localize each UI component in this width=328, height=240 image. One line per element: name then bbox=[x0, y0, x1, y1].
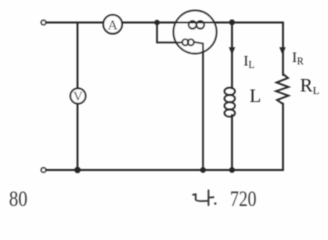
node junction dot L branch bottom bbox=[229, 167, 235, 173]
svg-text:80: 80 bbox=[9, 186, 28, 211]
ammeter A bbox=[103, 15, 122, 34]
node junction dot wattmeter coil bottom bbox=[200, 167, 206, 173]
voltmeter V bbox=[70, 88, 85, 103]
terminal top-left bbox=[41, 20, 46, 25]
svg-text:V: V bbox=[73, 89, 83, 104]
wire R branch lower bbox=[282, 104, 284, 171]
wattmeter W body bbox=[174, 11, 217, 54]
svg-text:720: 720 bbox=[230, 186, 257, 211]
text period bbox=[214, 202, 216, 204]
wattmeter potential coil lead right / wire down bbox=[194, 42, 203, 170]
wire R branch upper bbox=[282, 23, 284, 76]
wire top rail bbox=[46, 22, 283, 24]
wattmeter current coil bbox=[189, 21, 205, 29]
svg-text:A: A bbox=[108, 19, 119, 34]
node junction dot voltmeter bottom bbox=[74, 167, 80, 173]
arrow current IL bbox=[229, 47, 235, 54]
terminal bottom-left bbox=[41, 168, 46, 173]
node junction dot left of wattmeter bbox=[154, 20, 159, 25]
resistor RL zigzag bbox=[276, 74, 289, 104]
wattmeter potential coil lead left bbox=[157, 24, 182, 43]
wire L branch lower bbox=[231, 115, 233, 170]
svg-text:L: L bbox=[250, 86, 262, 107]
wattmeter potential coil bbox=[182, 39, 194, 45]
wire voltmeter branch bbox=[77, 23, 79, 171]
wire bottom rail bbox=[46, 169, 283, 171]
text korean na bbox=[193, 190, 213, 205]
wire through wattmeter bbox=[172, 22, 218, 24]
node junction dot L branch top bbox=[229, 19, 235, 25]
inductor L bbox=[224, 88, 235, 117]
arrow current IR bbox=[279, 47, 285, 54]
wire L branch upper bbox=[231, 22, 233, 88]
